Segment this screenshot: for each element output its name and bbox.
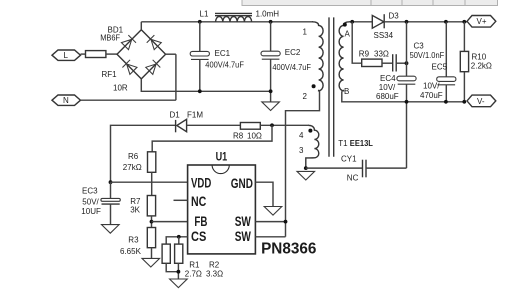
svg-text:2.7Ω: 2.7Ω: [185, 269, 202, 278]
svg-text:400V/4.7uF: 400V/4.7uF: [272, 63, 311, 72]
svg-text:3: 3: [299, 146, 304, 155]
svg-text:EC3: EC3: [82, 187, 98, 196]
svg-text:2: 2: [303, 92, 308, 101]
svg-text:50V/1.0nF: 50V/1.0nF: [410, 51, 445, 60]
svg-text:3.3Ω: 3.3Ω: [206, 269, 223, 278]
svg-text:1.0mH: 1.0mH: [256, 10, 280, 19]
svg-text:GND: GND: [231, 176, 253, 191]
svg-text:VDD: VDD: [191, 175, 212, 190]
svg-text:1: 1: [303, 27, 308, 36]
svg-text:T1: T1: [338, 139, 348, 148]
svg-text:EC2: EC2: [285, 48, 301, 57]
svg-text:NC: NC: [347, 174, 359, 183]
svg-text:33Ω: 33Ω: [374, 50, 389, 59]
svg-text:50V/: 50V/: [82, 197, 99, 206]
svg-text:F1M: F1M: [187, 111, 203, 120]
svg-text:10V/: 10V/: [423, 81, 440, 90]
svg-text:EE13L: EE13L: [350, 139, 373, 148]
svg-text:A: A: [345, 30, 351, 39]
svg-text:V+: V+: [477, 17, 487, 26]
svg-text:EC4: EC4: [380, 74, 396, 83]
svg-text:10R: 10R: [113, 84, 128, 93]
svg-text:27kΩ: 27kΩ: [123, 163, 142, 172]
svg-text:R6: R6: [128, 152, 139, 161]
svg-text:SW: SW: [235, 214, 251, 229]
svg-text:V-: V-: [477, 97, 485, 106]
svg-text:NC: NC: [191, 194, 207, 209]
svg-text:470uF: 470uF: [420, 91, 443, 100]
svg-text:10V/: 10V/: [379, 83, 396, 92]
svg-text:R8: R8: [233, 132, 244, 141]
svg-text:680uF: 680uF: [376, 92, 399, 101]
svg-text:EC1: EC1: [215, 49, 231, 58]
svg-text:3K: 3K: [130, 206, 140, 215]
svg-text:R2: R2: [209, 260, 220, 269]
svg-text:R3: R3: [128, 235, 139, 244]
svg-text:U1: U1: [216, 150, 228, 164]
svg-text:B: B: [344, 87, 349, 96]
svg-text:D1: D1: [170, 111, 181, 120]
svg-text:CY1: CY1: [341, 155, 357, 164]
svg-text:L1: L1: [200, 10, 209, 19]
svg-text:10UF: 10UF: [81, 207, 101, 216]
svg-text:R10: R10: [472, 53, 487, 62]
svg-text:10Ω: 10Ω: [247, 132, 262, 141]
svg-text:400V/4.7uF: 400V/4.7uF: [205, 60, 244, 69]
svg-text:CS: CS: [191, 229, 206, 244]
svg-text:4: 4: [299, 131, 304, 140]
svg-text:RF1: RF1: [102, 70, 118, 79]
svg-text:FB: FB: [194, 214, 207, 229]
svg-text:R1: R1: [189, 260, 200, 269]
svg-text:R9: R9: [359, 50, 370, 59]
svg-text:6.65K: 6.65K: [120, 247, 142, 256]
svg-text:D3: D3: [389, 11, 400, 20]
svg-text:C3: C3: [414, 42, 425, 51]
svg-text:SS34: SS34: [374, 31, 394, 40]
svg-text:EC5: EC5: [432, 62, 448, 71]
svg-text:MB6F: MB6F: [100, 34, 120, 43]
svg-text:PN8366: PN8366: [261, 240, 316, 257]
svg-text:N: N: [63, 96, 69, 105]
svg-text:2.2kΩ: 2.2kΩ: [471, 62, 492, 71]
svg-text:L: L: [64, 51, 69, 60]
svg-text:SW: SW: [235, 229, 251, 244]
